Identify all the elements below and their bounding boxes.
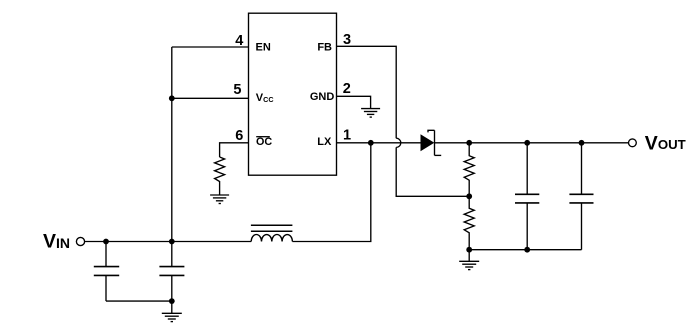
svg-text:VOUT: VOUT [645,132,686,154]
inductor L1 [251,225,293,241]
ground (below R_OC) [210,195,229,204]
wire output bottom rail [469,249,581,251]
wire hop (FB line over LX line) [396,138,401,147]
node Vcc tap junction [169,95,175,101]
capacitor C3 (output) [515,143,539,250]
wire GND stub [337,96,371,108]
wire FB stub and vertical [337,46,397,138]
ground (output divider) [459,250,479,270]
wire VIN horizontal [85,241,251,243]
wire OC stub [220,143,249,157]
wire Vcc stub [172,97,249,99]
wire EN stub [172,46,249,48]
node FB divider junction [466,193,472,199]
node output cap2 top [579,140,585,146]
resistor R1 (divider top) [464,143,474,197]
IC U1 (switching regulator, body) [249,13,337,175]
svg-text:FB: FB [317,42,332,54]
node input cap2 / EN vertical junction [169,239,175,245]
capacitor C2 (input) [159,242,184,302]
terminal VIN (open circle) [76,237,84,245]
svg-text:1: 1 [343,127,351,143]
terminal VOUT (open circle) [629,139,637,147]
svg-text:LX: LX [317,136,332,148]
wire LX stub [337,142,421,144]
wire FB vertical lower + to divider [396,147,469,196]
ground (input caps) [162,301,182,322]
wire inductor to LX vertical [292,143,370,242]
svg-text:4: 4 [235,33,243,49]
svg-text:6: 6 [235,128,243,144]
resistor R_OC [215,157,225,195]
svg-text:OC: OC [256,136,272,148]
node input cap ground junction [169,298,175,304]
node divider bottom junction [466,247,472,253]
wire left vertical (EN/Vcc to VIN) [171,47,173,242]
capacitor C4 (output) [569,143,593,250]
node output cap1 top [524,140,530,146]
svg-text:5: 5 [233,82,241,98]
svg-text:VIN: VIN [43,231,70,253]
svg-text:GND: GND [310,91,335,103]
wire output line [435,142,629,144]
node output cap1 bottom [524,247,530,253]
capacitor C1 (input) [94,242,119,302]
node LX/inductor junction [368,140,374,146]
svg-text:EN: EN [256,42,271,54]
wire cap bottom rail [106,300,172,302]
ground (GND pin) [361,109,380,118]
resistor R2 (divider bottom) [464,196,474,249]
node input cap1 tap [103,239,109,245]
svg-text:3: 3 [343,32,351,48]
node diode cathode / divider top [466,140,472,146]
svg-text:VCC: VCC [256,92,274,104]
svg-text:2: 2 [343,81,351,97]
diode D1 (Schottky) [421,130,442,155]
